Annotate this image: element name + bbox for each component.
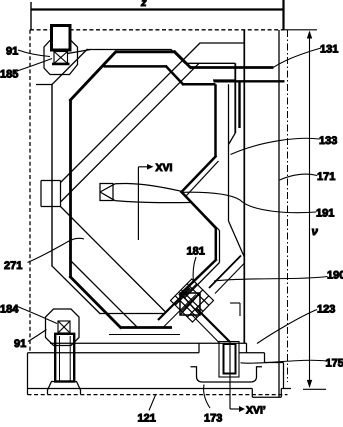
contact hole X-box 91 (top): [54, 52, 68, 64]
TFT contact box with X: [180, 293, 200, 315]
svg-text:ν: ν: [312, 226, 319, 238]
gate line lower edge (dashed): [28, 394, 288, 396]
diagonal D1: [61, 43, 201, 183]
svg-text:131: 131: [320, 44, 338, 56]
leader 171: [280, 174, 318, 180]
storage expansion over data line: [214, 81, 285, 128]
leader 121: [149, 395, 156, 411]
leader 181: [193, 257, 196, 283]
wedge slit line B: [100, 192, 190, 203]
svg-text:133: 133: [319, 135, 337, 147]
svg-text:181: 181: [187, 246, 205, 258]
passivation contour 173 (U-shape under drain contact): [191, 367, 263, 382]
diagonal D4: [61, 207, 166, 312]
svg-text:173: 173: [204, 413, 222, 425]
leader 190: [214, 277, 328, 282]
storage electrode line 131 (thick ring): [70, 51, 274, 329]
leader 184: [18, 307, 58, 324]
interior domain lines (thin diagonals): [61, 43, 220, 328]
svg-text:z: z: [140, 0, 147, 9]
data line branch vertical: [243, 30, 245, 344]
wedge slit line A: [100, 183, 182, 192]
leader 131: [274, 48, 322, 67]
svg-text:185: 185: [0, 69, 18, 81]
bottom storage pad (octagon 184): [46, 309, 80, 346]
svg-text:191: 191: [316, 208, 334, 220]
svg-text:91: 91: [14, 338, 26, 350]
drain step details: [230, 303, 240, 316]
svg-text:123: 123: [317, 304, 335, 316]
top-left pad (octagon 185): [44, 41, 78, 75]
boundary dash-dot line: [287, 30, 289, 382]
drain contact 175: [219, 342, 239, 378]
leader 185: [14, 59, 52, 73]
storage pad stem bar: [55, 334, 74, 382]
diagonal D2: [61, 63, 200, 202]
wedge slit end box: [100, 184, 113, 201]
section line XVI: [138, 167, 149, 240]
pixel opening thin outline: [52, 43, 244, 314]
svg-text:271: 271: [4, 260, 22, 272]
leader 91 (bottom): [28, 330, 47, 342]
svg-text:XVI’: XVI’: [246, 405, 266, 417]
svg-text:91: 91: [6, 46, 18, 58]
gate line 121: [28, 343, 292, 397]
leader 123: [257, 310, 317, 344]
pixel electrode 191 (thick outline): [104, 66, 217, 296]
section line XVI': [230, 341, 240, 409]
dimension line v (right): [284, 30, 327, 390]
left tab of storage electrode: [36, 85, 61, 207]
diagonal D3: [71, 261, 138, 328]
left cut line (dashed vertical): [29, 30, 31, 353]
contact hole X-box (bottom): [58, 321, 70, 333]
stem foot: [48, 382, 81, 395]
svg-text:175: 175: [326, 358, 343, 370]
svg-text:190: 190: [327, 270, 343, 282]
svg-text:184: 184: [0, 304, 19, 316]
pad stem rect (thick): [52, 26, 71, 51]
dimension line z (top): [31, 0, 284, 30]
svg-text:121: 121: [138, 413, 156, 425]
drain electrode double diagonal: [196, 308, 230, 342]
pixel bottom thin line: [109, 334, 180, 336]
semiconductor 133 edge (stepped thin line): [229, 63, 245, 257]
leader 173: [204, 385, 210, 409]
leader 191: [183, 192, 316, 212]
svg-text:171: 171: [317, 171, 335, 183]
leader 133: [231, 138, 320, 154]
TFT region 181 (crosshatch diamond): [171, 279, 214, 322]
notch thin parallels: [186, 161, 219, 196]
data line 171: [278, 30, 280, 397]
source branch diagonals to data line: [209, 256, 241, 289]
leader 91 (top): [18, 50, 50, 57]
gate line upper edge (dashed): [30, 29, 284, 31]
leader 175: [241, 360, 327, 363]
source electrode double diagonal: [158, 288, 190, 320]
leader 271: [28, 238, 85, 262]
svg-text:XVI: XVI: [156, 162, 173, 174]
